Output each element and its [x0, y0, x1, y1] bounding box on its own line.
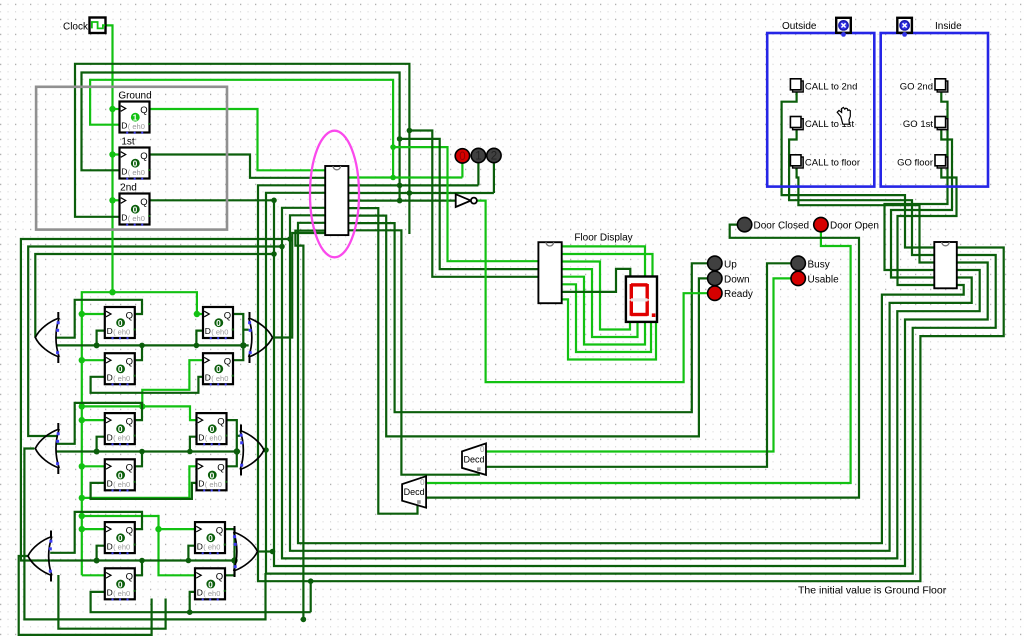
junction row2 FFa D	[94, 449, 100, 455]
wire row2 FFa D riser	[97, 437, 105, 452]
wire OR-R3 output	[258, 550, 273, 552]
wire seg b	[562, 254, 653, 277]
wire clock stub 1st ff	[113, 153, 120, 155]
junction clock	[79, 495, 85, 501]
floor display decoder IC U3	[538, 242, 561, 303]
wire GO floor	[898, 168, 957, 285]
junction row1 FFc D	[194, 343, 200, 349]
wire register out to Up lamp	[348, 223, 707, 412]
svg-text:GO 1st: GO 1st	[903, 119, 933, 130]
flip-flop grid 7 (state 0)	[197, 413, 228, 445]
wire row3 FFb Q join bus	[135, 561, 142, 576]
wire bottom rail to row3 FFd	[58, 575, 165, 629]
wire register out to LED 2	[348, 192, 494, 194]
junction clock	[79, 357, 85, 363]
wire seg c	[562, 262, 630, 330]
LED Up	[708, 256, 722, 270]
wire clock branch ff R2d (bright link)	[82, 466, 197, 498]
wire clock stub left ff	[82, 313, 105, 315]
junction bit1 branch	[397, 136, 403, 142]
wire row1 shared D bus	[57, 344, 244, 346]
wire clock branch row3 right	[82, 516, 195, 575]
wire CALL to 1st	[789, 130, 934, 255]
LED Ready (red)	[708, 286, 722, 300]
wire OR-L2 output lower rail	[24, 449, 265, 620]
svg-text:Clock: Clock	[63, 21, 89, 32]
svg-text:1: 1	[475, 151, 481, 163]
wire register out bit0 (bright) to LED 0	[348, 176, 462, 178]
svg-text:GO 2nd: GO 2nd	[900, 81, 933, 92]
wire LED1 stub	[477, 163, 479, 185]
wire clock stub ff R3c	[159, 528, 196, 530]
LED Usable (red)	[791, 271, 805, 285]
wire LED2 stub	[493, 163, 495, 193]
gray selection box around top flip-flops	[36, 87, 227, 230]
wire row3 FFb/FFd shared D line via bottom	[91, 592, 311, 612]
junction clock	[109, 289, 115, 295]
LED Down	[708, 271, 722, 285]
junction clock	[79, 526, 85, 532]
svg-text:Ground: Ground	[118, 91, 151, 102]
wire LED0 stub	[461, 163, 463, 177]
wire row1 FFb Q join bus	[135, 345, 142, 360]
wire CALL to 2nd	[782, 92, 935, 248]
wire 1st-ff D net (dark): top run to NOT input	[82, 73, 400, 201]
svg-text:Up: Up	[724, 259, 737, 270]
wire row2 right vertical with Q stubs	[228, 420, 237, 466]
wire seg dp	[562, 299, 656, 359]
junction row3 FFc D	[186, 558, 192, 564]
or-gate OR-R3 (east)	[233, 526, 257, 577]
NOT gate U2	[456, 194, 471, 207]
decoder Decd1	[462, 443, 486, 475]
junction clock	[194, 311, 200, 317]
junction bit2/LED2	[407, 190, 413, 196]
wire row1 OR-R in2 stub	[243, 344, 248, 346]
wire 2nd-ff D net (dark): top run down center	[75, 64, 409, 234]
wire row1 FFb/FFd shared D line	[91, 377, 203, 393]
svg-text:2nd: 2nd	[120, 183, 137, 194]
svg-text:Door Open: Door Open	[830, 221, 879, 232]
decoder Decd2	[402, 476, 426, 508]
Outside panel box	[767, 33, 874, 187]
button CALL to 2nd	[790, 79, 803, 92]
junction clock	[155, 526, 161, 532]
wire bit1 branch to floor display	[400, 139, 539, 269]
wire bus loop 5	[298, 223, 964, 543]
junction row3 D line	[187, 609, 193, 615]
svg-text:Inside: Inside	[935, 21, 962, 32]
wire clock stub left ff	[82, 465, 105, 467]
svg-text:Ready: Ready	[724, 289, 753, 300]
LED 0 (red)	[455, 149, 469, 163]
flip-flop grid 12 (state 0)	[195, 568, 226, 600]
svg-text:0: 0	[459, 151, 465, 163]
input pin Inside	[897, 18, 912, 37]
svg-text:CALL to floor: CALL to floor	[805, 157, 860, 168]
wire clock stub left ff	[82, 419, 105, 421]
svg-text:1st: 1st	[121, 137, 135, 148]
junction row2 FFb Q	[139, 449, 145, 455]
wire register out to Down lamp	[348, 216, 707, 437]
wire row3 FFa Q loop to OR-L	[50, 512, 142, 553]
wire row3 right vertical with Q stubs	[226, 529, 235, 575]
flip-flop grid 3 (state 0)	[203, 307, 234, 339]
right-side IC U4	[934, 242, 957, 288]
junction bit1/NOT	[397, 198, 403, 204]
wire register out to decoder1 select	[348, 230, 478, 474]
junction bit0 branch	[390, 144, 396, 150]
seven-segment display showing 0	[626, 277, 657, 322]
wire OR-L3 input feedback rail	[21, 239, 290, 561]
wire ground Q to register pin1	[151, 109, 326, 170]
junction rail3/loop5	[287, 236, 293, 242]
flip-flop grid 10 (state 0)	[105, 568, 136, 600]
clock component	[90, 18, 106, 34]
wire row2 shared D bus	[57, 450, 237, 452]
LED 2 (off)	[487, 148, 501, 162]
flip-flop grid 2 (state 0)	[105, 353, 136, 385]
wire bus loop 0	[258, 185, 1004, 581]
wire row3 FFd D riser	[190, 592, 195, 612]
wire clock stub 2nd ff	[113, 199, 120, 201]
junction clock	[79, 417, 85, 423]
wire row1 right vertical with Q stubs	[234, 314, 243, 360]
svg-text:Busy: Busy	[808, 259, 830, 270]
wire seg a	[562, 246, 645, 276]
button CALL to floor	[790, 155, 803, 168]
junction rail1/loop3	[271, 251, 277, 257]
junction row2 FFc D	[187, 449, 193, 455]
wire row3 shared D bus	[50, 559, 234, 561]
wire decoder1 out0 to Usable (bright)	[486, 278, 791, 451]
svg-text:GO floor: GO floor	[897, 157, 933, 168]
junction pin9/bottom rail	[301, 617, 307, 623]
wire NOT output to Ready lamp (bright)	[477, 201, 708, 383]
flip-flop grid 9 (state 0)	[105, 522, 136, 554]
wire seg g dark	[562, 269, 631, 292]
flip-flop grid 5 (state 0)	[105, 413, 136, 445]
wire row1 FFa Q loop to OR-L	[57, 300, 143, 338]
svg-text:The initial value is Ground Fl: The initial value is Ground Floor	[798, 585, 947, 597]
wire register out to NOT gate input	[348, 200, 456, 202]
wire row2 FFc D riser	[190, 437, 197, 452]
wire GO 2nd	[885, 92, 948, 270]
junction bit1/LED1	[397, 183, 403, 189]
svg-text:CALL to 2nd: CALL to 2nd	[805, 81, 857, 92]
wire bus loop 3	[282, 208, 980, 559]
button GO 2nd	[935, 79, 948, 92]
wire CALL to floor	[797, 168, 935, 263]
svg-text:Down: Down	[724, 274, 750, 285]
wire bus loop 2	[151, 200, 988, 566]
wire seg e	[562, 277, 645, 345]
LED 1 (off)	[471, 148, 485, 162]
flip-flop 2nd (state 0)	[120, 194, 151, 226]
LED Door Closed	[737, 217, 751, 231]
wire clock net vertical from clock	[82, 25, 113, 575]
wire clock stub ground ff	[113, 108, 120, 110]
wire bus loop 4	[290, 215, 972, 551]
wire clock branch row2 right	[82, 406, 197, 420]
svg-text:Usable: Usable	[808, 274, 840, 285]
wire bus loop 1	[266, 193, 996, 574]
LED Busy	[791, 256, 805, 270]
wire row2 FFa Q loop to OR-L	[57, 403, 143, 444]
button CALL to 1st	[790, 117, 803, 130]
wire row2 FFb Q join bus	[135, 452, 142, 467]
junction clock	[109, 106, 115, 112]
wire row2 OR-R in1 stub	[237, 435, 240, 437]
wire decoder2 out0 to Door Open (bright)	[426, 232, 850, 483]
flip-flop grid 1 (state 0)	[105, 307, 136, 339]
button GO floor	[935, 155, 948, 168]
junction row3 right bus	[231, 557, 237, 563]
junction row1 FFb Q	[139, 343, 145, 349]
flip-flop grid 6 (state 0)	[105, 459, 136, 491]
junction row3 FFa D	[94, 558, 100, 564]
junction row1 FFa D	[94, 342, 100, 348]
wire bit2 branch to floor display	[409, 131, 538, 277]
wire clock branch right row1	[113, 292, 204, 314]
wire OR-L2 input feedback rail	[28, 247, 282, 437]
junction bundle line6	[308, 578, 314, 584]
wire row3 D line to bundle	[310, 581, 312, 612]
svg-text:2: 2	[491, 151, 497, 163]
flip-flop grid 8 (state 0)	[197, 459, 228, 491]
button GO 1st	[935, 117, 948, 130]
wire OR-L3 output bottom rail	[19, 556, 152, 635]
wire row2 OR-R in2 stub	[237, 450, 240, 452]
junction row1 right bus	[240, 342, 246, 348]
junction row2 right bus	[234, 448, 240, 454]
flip-flop grid 11 (state 0)	[195, 522, 226, 554]
junction 2nd Q / loop2	[271, 198, 277, 204]
poke cursor hand icon	[837, 107, 850, 124]
wire register out to LED 1	[348, 184, 478, 186]
junction clock	[109, 151, 115, 157]
wire register out to decoder2 select	[348, 208, 417, 514]
wire seg f	[562, 284, 651, 352]
wire decoder1 out1 to Busy	[486, 263, 791, 467]
or-gate OR-L2 (west)	[35, 423, 59, 474]
highlight ellipse (magenta)	[310, 131, 359, 258]
junction rail2/loop4	[279, 244, 285, 250]
wire OR-R1 output to register bottom	[272, 233, 336, 338]
junction clock	[109, 197, 115, 203]
or-gate OR-L1 (west)	[35, 312, 59, 363]
wire row1 FFa D riser	[97, 331, 105, 346]
or-gate OR-R1 (east)	[248, 312, 272, 363]
wire GO 1st	[891, 130, 952, 278]
wire decoder2 out1 to Door Closed	[426, 225, 859, 498]
Inside panel box	[881, 33, 988, 187]
or-gate OR-R2 (east)	[240, 425, 264, 476]
wire clock branch ff R1d (bright link)	[142, 360, 203, 406]
svg-text:Floor Display: Floor Display	[574, 233, 632, 244]
junction clock	[79, 513, 85, 519]
wire row1 OR-R in1 stub	[243, 329, 248, 331]
junction clock	[79, 463, 85, 469]
wire clock stub left ff	[82, 574, 105, 576]
flip-flop 1st (state 0)	[120, 148, 151, 180]
flip-flop grid 4 (state 0)	[203, 353, 234, 385]
wire bit0 branch to floor display (bright)	[393, 147, 538, 261]
LED Door Open (red)	[814, 217, 828, 231]
junction bit0/LED0	[390, 175, 396, 181]
input pin Outside	[836, 18, 851, 37]
wire row3 FFc D riser	[188, 546, 195, 561]
wire row3 FFa D riser	[97, 546, 105, 561]
svg-text:Door Closed: Door Closed	[754, 221, 810, 232]
junction bit2 branch	[407, 128, 413, 134]
wire seg d	[562, 269, 638, 337]
junction clock	[79, 403, 85, 409]
wire ground-ff D net (bright): left rail, top run, LED0 column	[90, 80, 393, 178]
or-gate OR-L3 (west)	[28, 531, 52, 582]
flip-flop Ground (state 1)	[120, 102, 151, 134]
wire row2 FFb/FFd shared D line	[91, 483, 197, 499]
register/selector IC U1	[325, 166, 348, 235]
wire clock stub left ff	[82, 528, 105, 530]
junction clock	[79, 311, 85, 317]
svg-text:Outside: Outside	[782, 21, 817, 32]
wire OR-L1 output feedback rail	[35, 254, 274, 338]
wire row1 FFc D riser	[196, 331, 203, 346]
wire clock stub left ff	[82, 359, 105, 361]
junction row3 FFb Q	[139, 558, 145, 564]
wire 1st Q to register pin2	[151, 155, 326, 178]
wire OR-R2 output	[264, 449, 266, 451]
wire register pin9 down to lower rail	[295, 231, 325, 620]
junction clock	[139, 403, 145, 409]
